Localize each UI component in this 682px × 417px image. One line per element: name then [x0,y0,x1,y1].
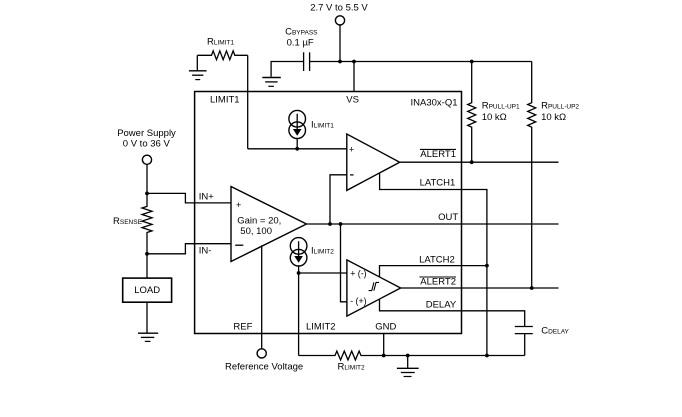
terminal: Reference Voltage [225,349,303,373]
svg-text:CBYPASS: CBYPASS [285,27,318,38]
node: IN- junction [145,252,149,256]
wire: OUT from op-amp [307,223,559,225]
wire: I_LIMIT1 stem [296,138,298,149]
svg-text:RLIMIT2: RLIMIT2 [338,362,365,373]
wire: comparator U3 + input [299,272,347,274]
svg-text:RSENSE: RSENSE [113,216,143,227]
node: VS junction [352,60,356,64]
svg-text:LOAD: LOAD [134,285,160,296]
svg-text:ALERT2: ALERT2 [420,277,456,288]
wire: IN+ jog [147,193,231,203]
svg-text:10 kΩ: 10 kΩ [482,112,507,123]
ground (C_BYPASS) [262,78,281,87]
node: I_LIMIT1 junction [295,147,299,151]
resistor R_LIMIT2 [299,351,525,373]
svg-text:IN-: IN- [199,246,212,257]
load block [123,278,172,302]
svg-text:0.1 µF: 0.1 µF [287,37,314,48]
node: GND junction [382,354,386,358]
comparator U2 (ALERT1) [347,134,400,190]
wire: IN- jog [147,244,231,254]
svg-text:LIMIT2: LIMIT2 [306,321,336,332]
resistor R_PULL-UP2 [528,62,580,289]
svg-text:IN+: IN+ [199,191,215,202]
wire: supply terminal to top rail [339,25,341,62]
node: LATCH1/LATCH2 junction [485,264,489,268]
resistor R_LIMIT1 [197,36,247,59]
ground (R_LIMIT1) [189,55,207,79]
svg-text:0 V to 36 V: 0 V to 36 V [123,138,171,149]
wire: GND pin drop [383,334,385,356]
wire: supply to sense node [146,164,148,193]
pin label ALERT1 (overlined) [420,149,456,160]
wire: LATCH1 pin to ground rail [380,173,487,356]
node: U3 feedback junction [339,222,343,226]
wire: LIMIT2 pin drop [298,273,300,356]
node: U2 feedback junction [328,222,332,226]
current source I_LIMIT2 [290,238,334,266]
svg-text:VS: VS [346,94,359,105]
ground (main) [397,356,419,377]
op-amp U1 (gain stage) [231,187,307,262]
wire: top rail [310,61,532,63]
svg-text:+: + [236,200,241,210]
wire: I_LIMIT2 stem [298,265,300,273]
wire: REF pin from op-amp [261,245,263,348]
svg-text:RPULL-UP2: RPULL-UP2 [541,100,579,111]
wire: LATCH2 pin [380,266,487,278]
svg-text:LATCH2: LATCH2 [419,255,455,266]
capacitor C_DELAY [515,325,570,355]
wire: U2 - input from OUT node [330,175,347,224]
svg-text:+: + [349,145,354,155]
svg-text:Reference Voltage: Reference Voltage [225,362,303,373]
svg-text:Power Supply: Power Supply [117,128,176,139]
wire: ALERT1 output [400,161,559,163]
svg-text:ILIMIT2: ILIMIT2 [311,245,334,256]
wire: comparator U2 + input [248,148,347,150]
node: IN+ junction [145,192,149,196]
node: supply/rail junction [338,60,342,64]
svg-text:50, 100: 50, 100 [240,226,272,237]
node: pull-up1 junction [470,60,474,64]
svg-text:LATCH1: LATCH1 [420,177,456,188]
svg-text:CDELAY: CDELAY [541,325,569,336]
svg-text:+ (-): + (-) [350,269,366,279]
terminal: 2.7 V to 5.5 V supply [310,2,368,25]
capacitor C_BYPASS [271,27,318,77]
wire: U3 - input from OUT node [341,224,347,302]
svg-text:ILIMIT1: ILIMIT1 [311,120,334,131]
node: ground symbol junction [406,354,410,358]
node: ALERT2/pull-up2 junction [530,286,534,290]
svg-text:- (+): - (+) [350,296,366,306]
svg-text:10 kΩ: 10 kΩ [541,112,566,123]
svg-text:2.7 V to 5.5 V: 2.7 V to 5.5 V [310,2,368,13]
svg-text:OUT: OUT [438,212,458,223]
wire: DELAY pin to C_DELAY [380,300,525,327]
node: ALERT1/pull-up1 junction [470,160,474,164]
terminal: Power Supply [117,128,176,164]
svg-text:RPULL-UP1: RPULL-UP1 [482,100,520,111]
current source I_LIMIT1 [289,110,334,138]
svg-text:INA30x-Q1: INA30x-Q1 [411,98,458,109]
node: latch rail junction [485,354,489,358]
resistor R_SENSE [113,193,152,253]
comparator U3 (ALERT2, with hysteresis) [347,260,401,316]
svg-text:LIMIT1: LIMIT1 [210,94,240,105]
svg-text:ALERT1: ALERT1 [420,149,456,160]
svg-text:DELAY: DELAY [426,299,457,310]
wire: R_LIMIT1 to LIMIT1 pin and comparator U2 + input [247,55,249,149]
svg-text:RLIMIT1: RLIMIT1 [207,36,234,47]
wire: sense node to LOAD [146,254,148,278]
wire: VS pin drop [353,62,355,92]
resistor R_PULL-UP1 [468,62,520,163]
IC box INA30x-Q1 [195,92,462,334]
ground (LOAD) [138,302,158,341]
svg-text:GND: GND [375,321,396,332]
svg-text:REF: REF [233,321,252,332]
node: I_LIMIT2 junction [297,271,301,275]
pin label ALERT2 (overlined) [420,277,457,288]
wire: ALERT2 output [401,287,559,289]
